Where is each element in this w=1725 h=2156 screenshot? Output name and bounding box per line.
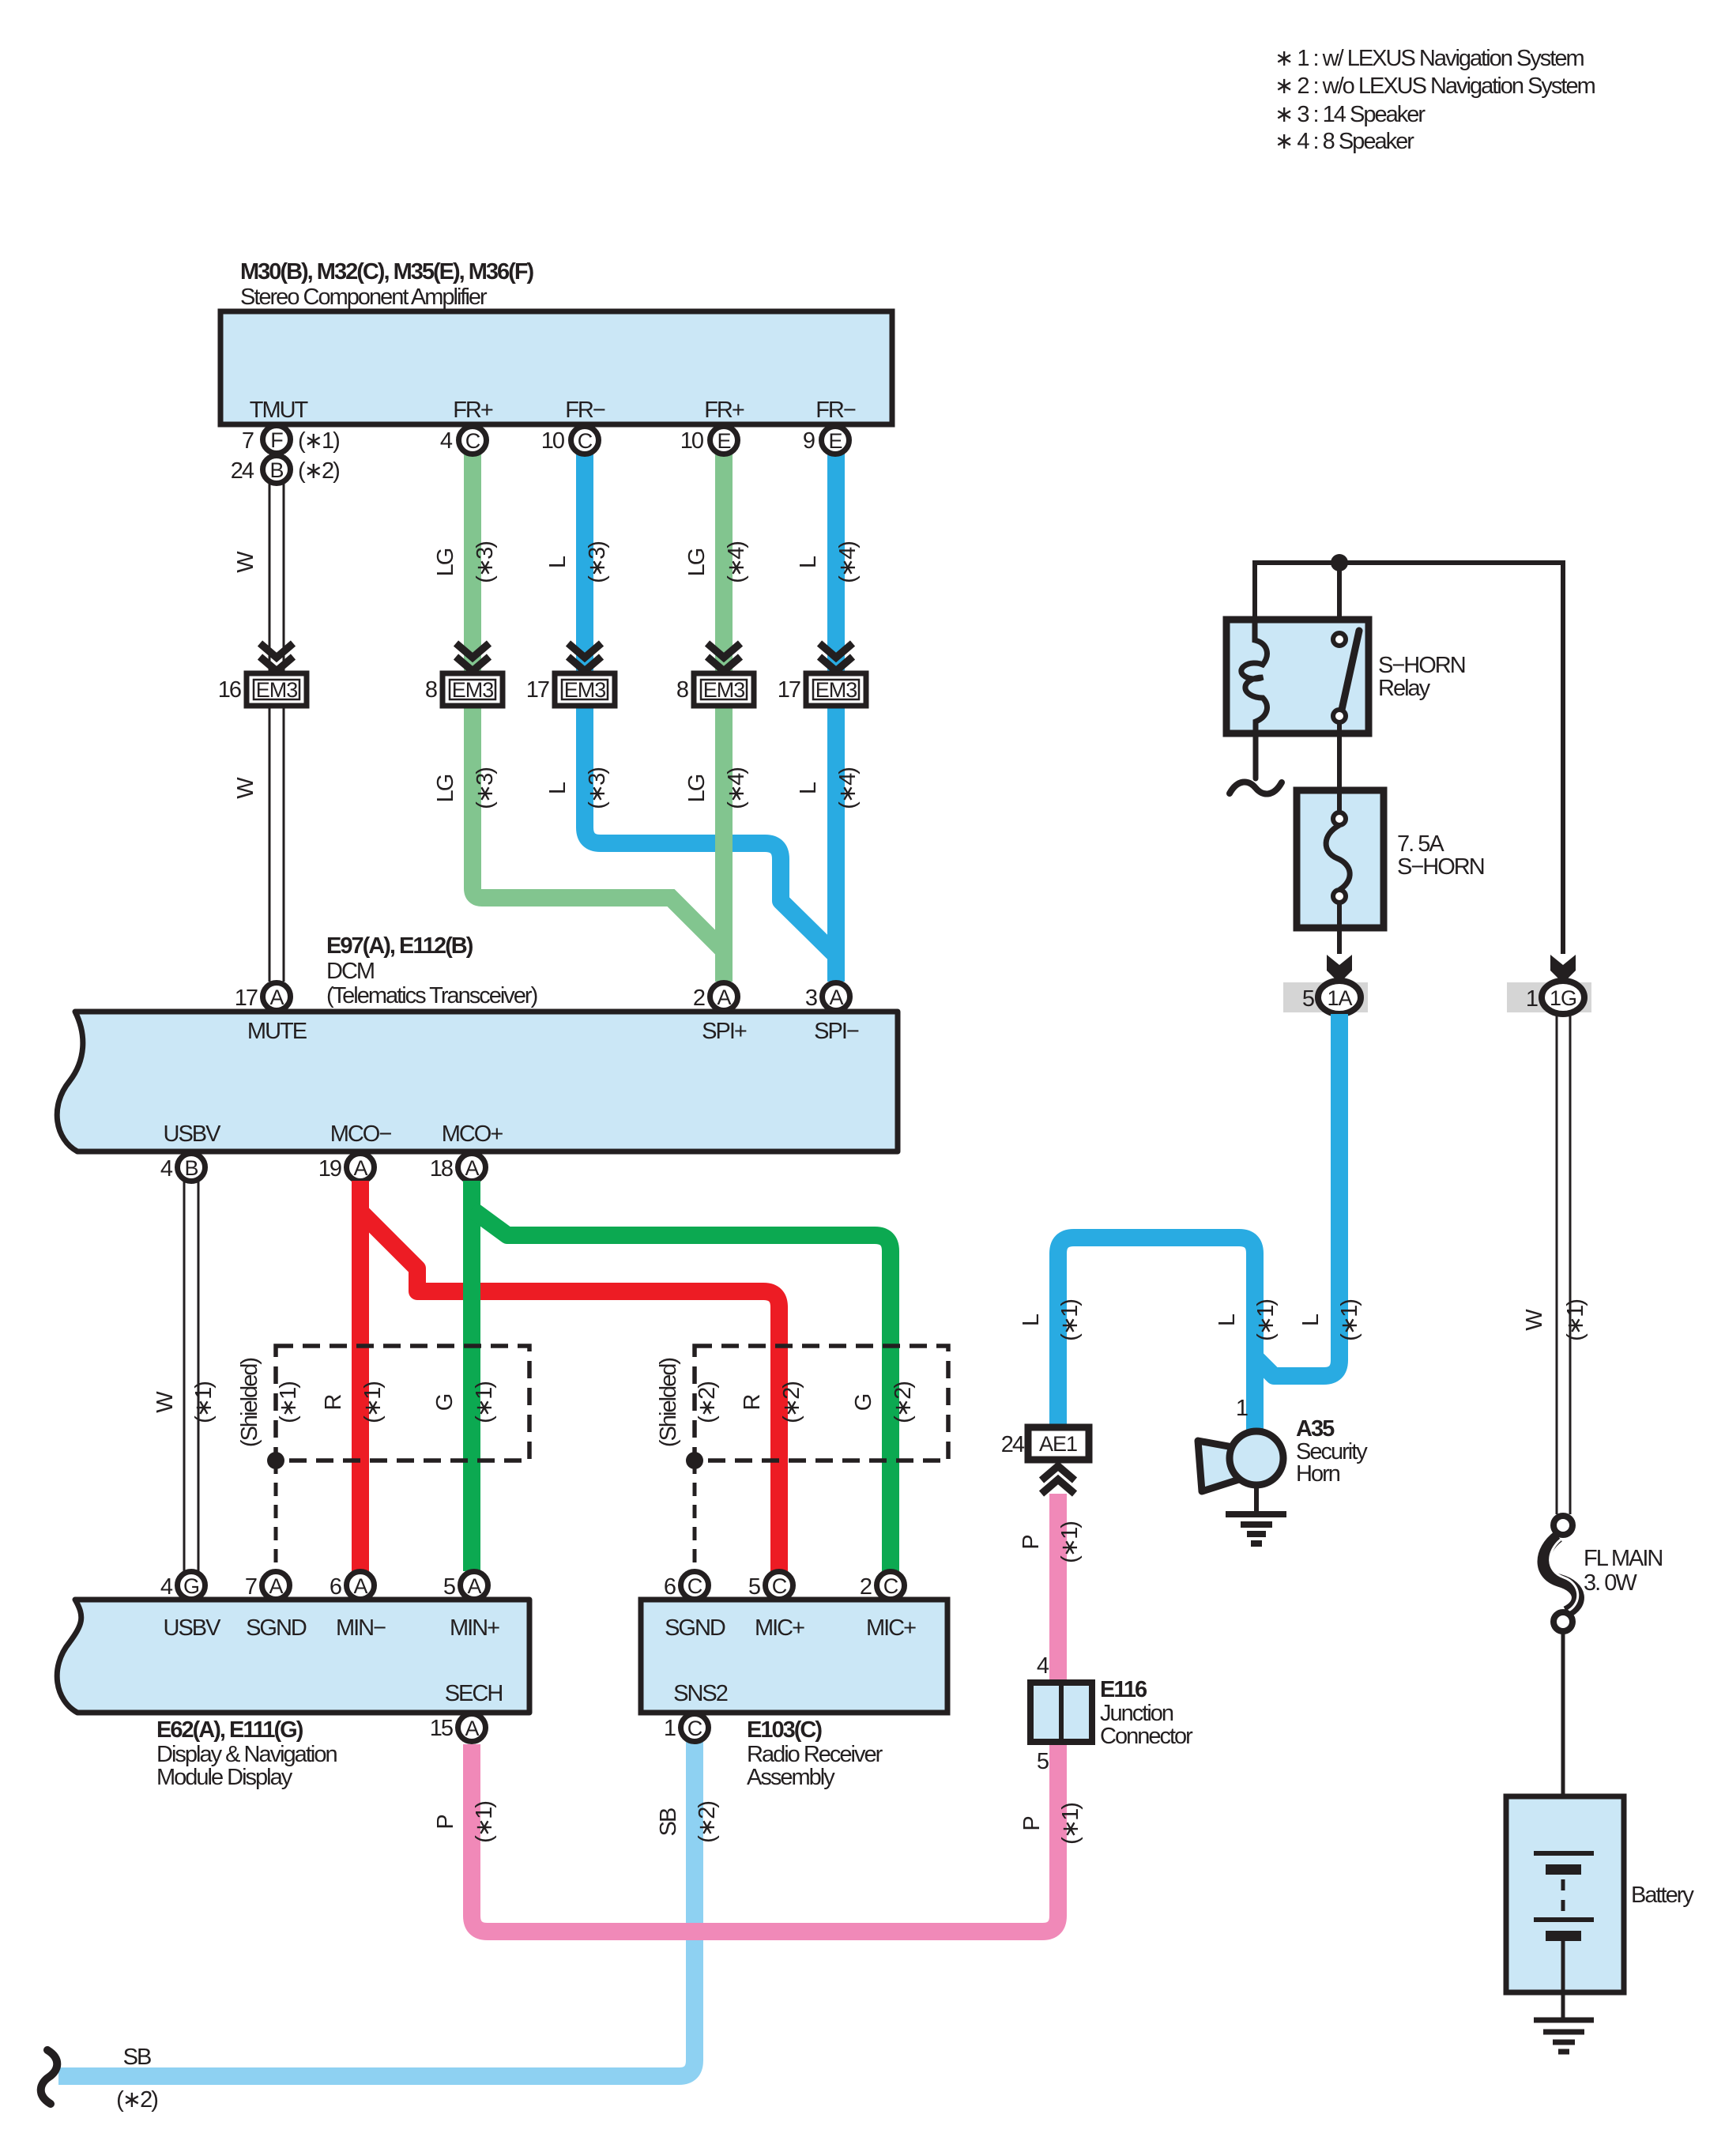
DCM pin 3 A SPI- bbox=[805, 983, 850, 1012]
connector EM3 column 1 (pin 16) with chevron bbox=[218, 643, 307, 706]
svg-text:P: P bbox=[1019, 1817, 1045, 1831]
svg-text:MIC+: MIC+ bbox=[866, 1615, 916, 1641]
svg-text:Battery: Battery bbox=[1631, 1883, 1694, 1908]
svg-text:USBV: USBV bbox=[164, 1121, 222, 1147]
svg-text:1: 1 bbox=[1526, 986, 1538, 1012]
radio pin 2 C MIC+ bbox=[860, 1572, 905, 1600]
svg-text:24: 24 bbox=[1001, 1432, 1025, 1457]
radio pin 5 C MIC+ bbox=[748, 1572, 793, 1600]
wire W white from amp pin B to DCM pin 17 bbox=[233, 483, 284, 982]
svg-text:L: L bbox=[545, 556, 571, 568]
svg-text:SGND: SGND bbox=[246, 1615, 307, 1641]
amp pin 10 E bbox=[680, 427, 738, 454]
shield box (Shielded)(*1) around R and G bbox=[237, 1346, 529, 1571]
svg-text:(∗1): (∗1) bbox=[1058, 1804, 1083, 1845]
svg-text:(∗1): (∗1) bbox=[276, 1382, 301, 1423]
wire L (*3) FR- from amp 10C joining SPI- bbox=[545, 454, 836, 955]
svg-text:(∗4): (∗4) bbox=[724, 542, 749, 583]
svg-text:P: P bbox=[1019, 1536, 1044, 1550]
svg-text:1G: 1G bbox=[1550, 986, 1576, 1010]
svg-text:W: W bbox=[233, 777, 258, 799]
svg-text:EM3: EM3 bbox=[256, 678, 298, 702]
svg-text:(∗1): (∗1) bbox=[1057, 1522, 1083, 1563]
svg-text:(Shielded): (Shielded) bbox=[656, 1359, 681, 1448]
harness arrow into 1G bbox=[1550, 955, 1576, 983]
svg-text:(Telematics Transceiver): (Telematics Transceiver) bbox=[326, 983, 537, 1008]
svg-text:1: 1 bbox=[1236, 1396, 1248, 1421]
svg-text:4: 4 bbox=[160, 1574, 173, 1600]
svg-text:TMUT: TMUT bbox=[250, 398, 309, 423]
display pin 6 A MIN- bbox=[330, 1572, 375, 1600]
svg-text:7. 5A: 7. 5A bbox=[1397, 831, 1444, 857]
svg-text:C: C bbox=[772, 1574, 787, 1598]
svg-text:G: G bbox=[851, 1394, 876, 1411]
ground below battery bbox=[1534, 2020, 1594, 2052]
radio pin 1 C SNS2 bbox=[664, 1714, 709, 1742]
svg-text:A: A bbox=[467, 1574, 481, 1598]
wire LG (*4) FR+ from amp 10E to DCM SPI+ pin 2 bbox=[684, 454, 749, 982]
svg-text:1: 1 bbox=[664, 1716, 676, 1741]
svg-text:EM3: EM3 bbox=[815, 678, 857, 702]
svg-text:(∗1): (∗1) bbox=[1253, 1300, 1279, 1341]
svg-text:5: 5 bbox=[748, 1574, 760, 1600]
svg-text:Module Display: Module Display bbox=[156, 1765, 293, 1790]
svg-text:MIN−: MIN− bbox=[336, 1615, 386, 1641]
svg-text:7: 7 bbox=[242, 428, 254, 454]
svg-text:(∗2): (∗2) bbox=[116, 2087, 157, 2113]
svg-text:(∗1): (∗1) bbox=[298, 428, 339, 454]
svg-text:SECH: SECH bbox=[445, 1681, 503, 1706]
DCM pin 2 A SPI+ bbox=[693, 983, 738, 1012]
svg-text:Radio Receiver: Radio Receiver bbox=[747, 1742, 883, 1767]
wire W (*1) from 1G to FL MAIN bbox=[1522, 1014, 1588, 1514]
svg-text:18: 18 bbox=[430, 1156, 453, 1182]
svg-text:5: 5 bbox=[1037, 1749, 1049, 1774]
fuse 7.5A S-HORN box bbox=[1297, 790, 1484, 954]
svg-text:(∗2): (∗2) bbox=[298, 458, 339, 484]
ground below security horn bbox=[1226, 1485, 1286, 1543]
relay coil bbox=[1230, 620, 1282, 794]
svg-text:R: R bbox=[321, 1394, 346, 1410]
connector 1 1G gray band bbox=[1507, 981, 1591, 1014]
display pin 4 G bbox=[160, 1572, 205, 1600]
amp pin 4 C bbox=[440, 427, 487, 454]
svg-text:Junction: Junction bbox=[1100, 1701, 1173, 1726]
battery bbox=[1506, 1796, 1694, 2020]
svg-text:15: 15 bbox=[430, 1716, 453, 1741]
svg-text:(∗1): (∗1) bbox=[472, 1382, 497, 1423]
svg-text:MIC+: MIC+ bbox=[755, 1615, 804, 1641]
DCM pin 18 A MCO+ bbox=[430, 1154, 486, 1182]
svg-text:M30(B), M32(C), M35(E), M36(F): M30(B), M32(C), M35(E), M36(F) bbox=[240, 259, 534, 285]
svg-text:USBV: USBV bbox=[164, 1615, 222, 1641]
svg-text:∗ 2 : w/o LEXUS Navigation Sys: ∗ 2 : w/o LEXUS Navigation System bbox=[1275, 73, 1595, 99]
amplifier M30/M32/M35/M36 Stereo Component Amplifier bbox=[220, 259, 892, 424]
svg-text:4: 4 bbox=[1037, 1653, 1049, 1679]
shield box (Shielded)(*2) around R and G radio side bbox=[656, 1346, 948, 1571]
wire R MCO- from DCM 19A to display MIN- and radio MIC+ bbox=[360, 1181, 779, 1571]
amp pin 24 B (*2) bbox=[231, 456, 339, 484]
wire P (*1) labels between AE1 and E116 bbox=[1019, 1522, 1083, 1845]
svg-text:MCO+: MCO+ bbox=[442, 1121, 503, 1147]
svg-text:6: 6 bbox=[664, 1574, 676, 1600]
svg-text:∗ 1 : w/ LEXUS Navigation Syst: ∗ 1 : w/ LEXUS Navigation System bbox=[1275, 46, 1584, 71]
svg-text:S−HORN: S−HORN bbox=[1378, 653, 1465, 678]
svg-text:Stereo Component Amplifier: Stereo Component Amplifier bbox=[240, 285, 488, 310]
svg-text:(∗1): (∗1) bbox=[360, 1382, 386, 1423]
svg-text:L: L bbox=[1019, 1314, 1044, 1326]
svg-text:10: 10 bbox=[541, 428, 564, 454]
wire SB (*2) from radio SNS2 1C to page break bbox=[41, 1742, 720, 2113]
svg-text:∗ 3 : 14 Speaker: ∗ 3 : 14 Speaker bbox=[1275, 102, 1426, 127]
svg-text:LG: LG bbox=[684, 775, 710, 802]
svg-text:(∗3): (∗3) bbox=[473, 542, 498, 583]
amp pin 9 E bbox=[803, 427, 849, 454]
svg-text:17: 17 bbox=[235, 986, 258, 1011]
svg-text:(∗2): (∗2) bbox=[695, 1382, 720, 1423]
wire P (*1) from display SECH 15A to AE1 via E116 bbox=[433, 1494, 1058, 1932]
svg-text:2: 2 bbox=[693, 986, 705, 1011]
svg-text:AE1: AE1 bbox=[1039, 1432, 1077, 1456]
harness arrow into 1A bbox=[1327, 955, 1352, 983]
svg-text:Assembly: Assembly bbox=[747, 1765, 835, 1790]
svg-text:Horn: Horn bbox=[1296, 1461, 1340, 1487]
DCM pin 4 B USBV bbox=[160, 1154, 205, 1182]
svg-text:C: C bbox=[465, 429, 480, 453]
svg-text:SNS2: SNS2 bbox=[673, 1681, 728, 1706]
svg-text:A: A bbox=[465, 1717, 479, 1740]
svg-text:C: C bbox=[883, 1574, 898, 1598]
svg-text:FR+: FR+ bbox=[704, 398, 744, 423]
wire LG (*3) FR+ from amp 4C to DCM SPI+ bbox=[433, 454, 724, 951]
connector EM3 column 5 (pin 17) with chevron bbox=[778, 643, 866, 706]
svg-text:C: C bbox=[687, 1574, 702, 1598]
svg-text:4: 4 bbox=[160, 1156, 173, 1182]
wire G MCO+ from DCM 18A to display MIN+ and radio MIC+ bbox=[472, 1181, 891, 1571]
svg-text:G: G bbox=[183, 1574, 199, 1598]
svg-text:17: 17 bbox=[526, 677, 549, 703]
fusible link FL MAIN 3.0W bbox=[1544, 1516, 1663, 1853]
svg-text:P: P bbox=[433, 1815, 458, 1830]
svg-text:5: 5 bbox=[1302, 986, 1314, 1012]
svg-text:W: W bbox=[153, 1391, 178, 1413]
svg-text:EM3: EM3 bbox=[452, 678, 494, 702]
battery feed wire top rail bbox=[1255, 563, 1563, 954]
svg-text:B: B bbox=[269, 458, 283, 482]
amp pin 10 C bbox=[541, 427, 599, 454]
svg-text:FR−: FR− bbox=[815, 398, 856, 423]
svg-text:SB: SB bbox=[123, 2045, 151, 2070]
svg-text:(∗3): (∗3) bbox=[585, 542, 610, 583]
svg-text:SPI+: SPI+ bbox=[702, 1019, 747, 1044]
svg-text:EM3: EM3 bbox=[703, 678, 745, 702]
svg-text:A: A bbox=[717, 986, 731, 1009]
svg-text:(∗4): (∗4) bbox=[835, 768, 861, 809]
relay switch contacts bbox=[1333, 631, 1359, 790]
radio receiver assembly block E103(C) bbox=[641, 1600, 947, 1790]
svg-text:LG: LG bbox=[684, 548, 710, 576]
svg-text:9: 9 bbox=[803, 428, 815, 454]
svg-text:3. 0W: 3. 0W bbox=[1584, 1570, 1637, 1596]
svg-text:(∗1): (∗1) bbox=[472, 1802, 497, 1843]
svg-text:1A: 1A bbox=[1327, 986, 1352, 1010]
svg-text:6: 6 bbox=[330, 1574, 341, 1600]
svg-text:E116: E116 bbox=[1100, 1677, 1147, 1702]
svg-text:A35: A35 bbox=[1296, 1416, 1335, 1442]
svg-text:G: G bbox=[432, 1394, 458, 1411]
DCM pin 19 A MCO- bbox=[318, 1154, 375, 1182]
svg-text:A: A bbox=[829, 986, 843, 1009]
svg-text:E: E bbox=[717, 429, 730, 453]
legend note *1..*4 bbox=[1275, 46, 1595, 154]
DCM pin 17 A MUTE bbox=[235, 983, 291, 1012]
svg-text:(∗2): (∗2) bbox=[779, 1382, 804, 1423]
security horn A35 bbox=[1198, 1396, 1368, 1491]
svg-text:E103(C): E103(C) bbox=[747, 1717, 822, 1743]
svg-text:FR−: FR− bbox=[565, 398, 605, 423]
svg-text:(∗2): (∗2) bbox=[891, 1382, 916, 1423]
svg-text:A: A bbox=[465, 1156, 479, 1180]
svg-text:E62(A), E111(G): E62(A), E111(G) bbox=[156, 1717, 303, 1743]
svg-text:(∗3): (∗3) bbox=[585, 768, 610, 809]
svg-text:L: L bbox=[1298, 1314, 1324, 1326]
display & navigation module display block E62(A) E111(G) bbox=[57, 1600, 529, 1790]
svg-text:EM3: EM3 bbox=[564, 678, 606, 702]
svg-text:MCO−: MCO− bbox=[330, 1121, 392, 1147]
svg-text:A: A bbox=[353, 1574, 367, 1598]
svg-text:Connector: Connector bbox=[1100, 1724, 1193, 1749]
svg-text:8: 8 bbox=[425, 677, 437, 703]
svg-text:A: A bbox=[269, 986, 284, 1009]
display pin 15 A SECH bbox=[430, 1714, 486, 1742]
svg-text:R: R bbox=[740, 1394, 765, 1410]
S-HORN relay box bbox=[1226, 620, 1465, 733]
svg-text:A: A bbox=[269, 1574, 283, 1598]
wire L (*1) from 1A to security horn and AE1 bbox=[1019, 1014, 1362, 1432]
junction connector E116 bbox=[1030, 1653, 1193, 1774]
svg-text:2: 2 bbox=[860, 1574, 872, 1600]
svg-text:W: W bbox=[1522, 1309, 1547, 1331]
svg-text:(∗2): (∗2) bbox=[695, 1802, 720, 1843]
junction node on rail bbox=[1331, 554, 1348, 571]
radio pin 6 C SGND bbox=[664, 1572, 709, 1600]
svg-text:(∗4): (∗4) bbox=[835, 542, 861, 583]
display pin 7 A SGND bbox=[245, 1572, 290, 1600]
wire W (*1) from DCM 4B to display USBV 4G bbox=[153, 1181, 217, 1571]
svg-text:Display & Navigation: Display & Navigation bbox=[156, 1742, 337, 1767]
connector EM3 column 3 (pin 17) with chevron bbox=[526, 643, 615, 706]
svg-text:17: 17 bbox=[778, 677, 800, 703]
svg-text:B: B bbox=[184, 1156, 198, 1180]
svg-text:E97(A), E112(B): E97(A), E112(B) bbox=[326, 933, 473, 959]
svg-text:SPI−: SPI− bbox=[814, 1019, 859, 1044]
svg-text:C: C bbox=[687, 1717, 702, 1740]
svg-text:Relay: Relay bbox=[1378, 676, 1431, 701]
svg-text:L: L bbox=[796, 556, 821, 568]
connector EM3 column 4 (pin 8) with chevron bbox=[676, 643, 754, 706]
svg-text:F: F bbox=[270, 428, 283, 452]
svg-text:(∗3): (∗3) bbox=[473, 768, 498, 809]
svg-text:(∗1): (∗1) bbox=[1057, 1300, 1083, 1341]
svg-text:8: 8 bbox=[676, 677, 688, 703]
svg-text:S−HORN: S−HORN bbox=[1397, 854, 1484, 880]
svg-text:A: A bbox=[353, 1156, 367, 1180]
amp pin 7 F (*1) bbox=[242, 426, 339, 454]
svg-text:(∗1): (∗1) bbox=[1563, 1300, 1588, 1341]
svg-text:10: 10 bbox=[680, 428, 703, 454]
svg-text:MUTE: MUTE bbox=[247, 1019, 307, 1044]
svg-text:LG: LG bbox=[433, 548, 458, 576]
svg-text:(∗1): (∗1) bbox=[1337, 1300, 1362, 1341]
svg-text:SGND: SGND bbox=[665, 1615, 725, 1641]
svg-text:24: 24 bbox=[231, 458, 254, 484]
wire L (*4) FR- from amp 9E to DCM SPI- pin 3 bbox=[796, 454, 861, 982]
svg-text:3: 3 bbox=[805, 986, 817, 1011]
svg-text:7: 7 bbox=[245, 1574, 257, 1600]
svg-text:E: E bbox=[828, 429, 842, 453]
connector 5 1A gray band bbox=[1283, 981, 1368, 1014]
DCM E97(A) E112(B) Telematics Transceiver block bbox=[57, 933, 898, 1151]
svg-text:(∗1): (∗1) bbox=[191, 1382, 217, 1423]
svg-text:LG: LG bbox=[433, 775, 458, 802]
svg-text:L: L bbox=[1215, 1314, 1240, 1326]
svg-text:5: 5 bbox=[443, 1574, 455, 1600]
svg-text:4: 4 bbox=[440, 428, 453, 454]
svg-text:FL MAIN: FL MAIN bbox=[1584, 1546, 1662, 1571]
svg-text:SB: SB bbox=[656, 1808, 681, 1836]
svg-text:MIN+: MIN+ bbox=[450, 1615, 499, 1641]
svg-text:L: L bbox=[796, 782, 821, 794]
svg-text:FR+: FR+ bbox=[453, 398, 493, 423]
connector 24 AE1 with chevron bbox=[1001, 1427, 1089, 1494]
svg-text:19: 19 bbox=[318, 1156, 341, 1182]
connector EM3 column 2 (pin 8) with chevron bbox=[425, 643, 503, 706]
svg-text:∗ 4 : 8 Speaker: ∗ 4 : 8 Speaker bbox=[1275, 129, 1414, 154]
svg-text:C: C bbox=[578, 429, 593, 453]
svg-text:DCM: DCM bbox=[326, 959, 374, 984]
svg-text:L: L bbox=[545, 782, 571, 794]
svg-text:(Shielded): (Shielded) bbox=[237, 1359, 262, 1448]
svg-text:W: W bbox=[233, 551, 258, 573]
svg-text:16: 16 bbox=[218, 677, 241, 703]
svg-text:(∗4): (∗4) bbox=[724, 768, 749, 809]
display pin 5 A MIN+ bbox=[443, 1572, 488, 1600]
